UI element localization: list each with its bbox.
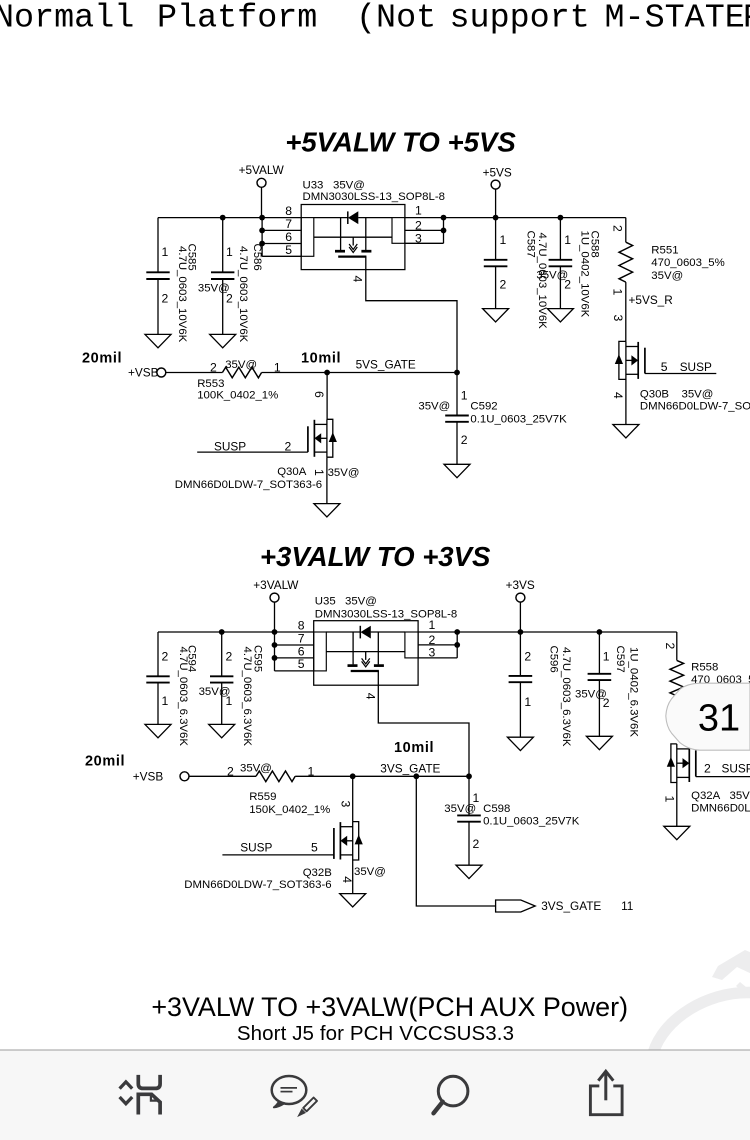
svg-text:SUSP: SUSP bbox=[214, 439, 246, 453]
toolbar icon: manage pages bbox=[120, 1075, 161, 1115]
wire down to Q32B bbox=[352, 776, 354, 821]
ground for Q32B bbox=[340, 894, 366, 907]
svg-text:1: 1 bbox=[312, 469, 326, 476]
svg-text:Normall: Normall bbox=[0, 0, 134, 38]
node rail/+3VALW junction bbox=[272, 629, 278, 635]
toolbar icon: annotate bbox=[272, 1076, 317, 1116]
svg-text:M-STATE: M-STATE bbox=[605, 0, 745, 38]
svg-text:DMN3030LSS-13_SOP8L-8: DMN3030LSS-13_SOP8L-8 bbox=[315, 609, 457, 621]
capacitor C596 bbox=[509, 632, 572, 747]
power terminal +VSB (section2) bbox=[133, 769, 256, 783]
svg-text:35V@: 35V@ bbox=[418, 401, 450, 413]
svg-text:(Not: (Not bbox=[356, 0, 436, 38]
transistor U33 body outline bbox=[301, 205, 405, 270]
power terminal +3VALW bbox=[253, 578, 299, 632]
wire Q30A source to ground bbox=[326, 457, 328, 503]
power terminal +5VS bbox=[483, 165, 512, 217]
svg-text:1: 1 bbox=[162, 245, 169, 259]
svg-text:2: 2 bbox=[500, 277, 507, 291]
wire pin2 stub bbox=[405, 229, 444, 231]
power terminal +3VS bbox=[506, 578, 535, 632]
node C598 junction bbox=[466, 773, 472, 779]
svg-text:4: 4 bbox=[363, 693, 377, 700]
wire +3VALW rail bbox=[158, 631, 314, 633]
svg-text:C597: C597 bbox=[614, 646, 626, 673]
transistor Q32B labels bbox=[184, 866, 386, 891]
svg-text:DMN66D0LDW-7_SOT363-6: DMN66D0LDW-7_SOT363-6 bbox=[691, 802, 750, 814]
svg-text:35V@: 35V@ bbox=[225, 359, 257, 371]
svg-text:3: 3 bbox=[415, 231, 422, 245]
svg-text:35V@: 35V@ bbox=[333, 180, 365, 192]
svg-text:C587: C587 bbox=[525, 231, 537, 258]
ground for C592 bbox=[444, 464, 470, 477]
svg-text:7: 7 bbox=[285, 217, 292, 231]
svg-text:150K_0402_1%: 150K_0402_1% bbox=[249, 804, 330, 816]
svg-text:10mil: 10mil bbox=[394, 740, 434, 756]
node Q30A gate junction bbox=[324, 370, 330, 376]
wire rail corner down to R558 bbox=[676, 632, 678, 660]
transistor Q30A bbox=[308, 419, 337, 457]
wire pin column to U35 pins 8-5 bbox=[275, 632, 314, 671]
svg-text:3: 3 bbox=[429, 646, 436, 660]
resistor R551 bbox=[611, 225, 725, 296]
mosfet inside U33 bbox=[314, 218, 392, 270]
wire 3VS_GATE net bbox=[295, 775, 469, 777]
svg-text:Q32B: Q32B bbox=[303, 867, 332, 879]
svg-text:2: 2 bbox=[704, 762, 711, 776]
svg-text:U33: U33 bbox=[303, 180, 324, 192]
ground for C586 bbox=[210, 334, 236, 347]
ground for C594 bbox=[145, 724, 171, 737]
wire Q30B gate to SUSP bbox=[645, 373, 716, 375]
op-amp U33 reference labels bbox=[303, 180, 445, 204]
wire pin column to U33 pins 8-5 bbox=[262, 218, 301, 257]
transistor Q32B bbox=[334, 822, 363, 860]
svg-text:+5VALW: +5VALW bbox=[239, 163, 285, 177]
svg-text:4: 4 bbox=[351, 276, 365, 283]
svg-text:31: 31 bbox=[698, 697, 740, 739]
svg-text:4.7U_0603_10V6K: 4.7U_0603_10V6K bbox=[237, 246, 249, 343]
svg-text:P: P bbox=[743, 0, 750, 38]
svg-text:8: 8 bbox=[298, 618, 305, 632]
capacitor C594 bbox=[146, 632, 197, 746]
header title text (cropped page header) bbox=[0, 0, 750, 38]
svg-text:20mil: 20mil bbox=[82, 350, 122, 366]
ground for Q32A bbox=[664, 826, 690, 839]
transistor U35 reference labels bbox=[315, 596, 457, 621]
toolbar icon: search bbox=[434, 1076, 468, 1113]
svg-text:3: 3 bbox=[611, 315, 625, 322]
svg-text:35V@: 35V@ bbox=[536, 270, 568, 282]
wire R558 to Q32A bbox=[676, 696, 678, 714]
node C597 junction bbox=[597, 629, 603, 635]
ground for C587 bbox=[483, 309, 509, 322]
node port drop junction bbox=[413, 773, 419, 779]
ground for C597 bbox=[586, 736, 612, 749]
node Q32B gate junction bbox=[350, 773, 356, 779]
svg-text:+5VS: +5VS bbox=[483, 165, 512, 179]
svg-text:2: 2 bbox=[162, 292, 169, 306]
node +5VS junction bbox=[493, 215, 499, 221]
wire down to Q30A bbox=[326, 373, 328, 420]
svg-text:5: 5 bbox=[661, 360, 668, 374]
svg-text:5: 5 bbox=[285, 243, 292, 257]
svg-text:+5VS_R: +5VS_R bbox=[629, 293, 673, 307]
svg-text:Q30B: Q30B bbox=[640, 388, 669, 400]
svg-text:1: 1 bbox=[662, 796, 676, 803]
svg-text:U35: U35 bbox=[315, 596, 336, 608]
wire pin2 stub (U35) bbox=[418, 644, 457, 646]
svg-text:1: 1 bbox=[564, 233, 571, 247]
svg-text:1U_0402_6.3V6K: 1U_0402_6.3V6K bbox=[627, 647, 639, 737]
svg-text:+3VALW TO +3VS: +3VALW TO +3VS bbox=[260, 541, 491, 572]
capacitor C585 bbox=[146, 218, 197, 343]
svg-text:C598: C598 bbox=[483, 803, 510, 815]
svg-text:3: 3 bbox=[339, 801, 353, 808]
transistor Q32A bbox=[667, 744, 696, 826]
svg-text:DMN66D0LDW-7_SOT363-6: DMN66D0LDW-7_SOT363-6 bbox=[175, 479, 322, 491]
node tie top (U35) bbox=[454, 629, 460, 635]
power terminal +5VALW bbox=[239, 163, 285, 218]
svg-text:C586: C586 bbox=[251, 244, 263, 271]
capacitor C592 bbox=[418, 373, 567, 465]
wire R551 to Q30B bbox=[625, 282, 627, 341]
svg-text:2: 2 bbox=[226, 650, 233, 664]
ground for C596 bbox=[507, 737, 533, 750]
svg-text:1: 1 bbox=[603, 649, 610, 663]
node C592 junction bbox=[454, 370, 460, 376]
svg-text:1: 1 bbox=[500, 233, 507, 247]
ground for C588 bbox=[547, 309, 573, 322]
svg-text:2: 2 bbox=[473, 837, 480, 851]
node pin6 junction (U35) bbox=[272, 655, 278, 661]
svg-text:C588: C588 bbox=[589, 231, 601, 258]
svg-text:C596: C596 bbox=[548, 646, 560, 673]
svg-text:35V@: 35V@ bbox=[682, 388, 714, 400]
toolbar top border bbox=[0, 1049, 750, 1051]
svg-text:3VS_GATE: 3VS_GATE bbox=[380, 761, 440, 775]
wire pin3 stub bbox=[405, 242, 444, 244]
svg-text:2: 2 bbox=[415, 218, 422, 232]
svg-text:Platform: Platform bbox=[157, 0, 317, 38]
svg-text:8: 8 bbox=[285, 204, 292, 218]
svg-text:3VS_GATE: 3VS_GATE bbox=[541, 899, 601, 913]
wire U33 pin1 to +5VS rail bbox=[405, 217, 626, 219]
svg-text:4.7U_0603_6.3V6K: 4.7U_0603_6.3V6K bbox=[241, 647, 253, 747]
mosfet inside U35 bbox=[326, 632, 405, 685]
toolbar icon: share bbox=[590, 1071, 622, 1114]
svg-text:support: support bbox=[450, 0, 590, 38]
svg-text:+3VALW: +3VALW bbox=[253, 578, 299, 592]
svg-text:C594: C594 bbox=[186, 645, 198, 672]
capacitor C598 bbox=[444, 776, 579, 865]
svg-text:11: 11 bbox=[621, 899, 633, 913]
svg-text:SUSP: SUSP bbox=[240, 841, 272, 855]
svg-text:0.1U_0603_25V7K: 0.1U_0603_25V7K bbox=[483, 816, 580, 828]
svg-text:5: 5 bbox=[298, 657, 305, 671]
transistor Q32A labels bbox=[662, 790, 750, 814]
svg-text:DMN66D0LDW-7_SOT363-6: DMN66D0LDW-7_SOT363-6 bbox=[640, 400, 750, 412]
wire pin1-2-3 tie (U35) bbox=[456, 632, 458, 658]
page number bubble 31 bbox=[666, 683, 750, 750]
svg-text:4.7U_0603_6.3V6K: 4.7U_0603_6.3V6K bbox=[560, 647, 572, 747]
svg-text:2: 2 bbox=[603, 696, 610, 710]
svg-text:R551: R551 bbox=[651, 245, 678, 257]
svg-text:6: 6 bbox=[285, 230, 292, 244]
svg-text:2: 2 bbox=[429, 633, 436, 647]
svg-text:5: 5 bbox=[311, 841, 318, 855]
svg-text:10mil: 10mil bbox=[301, 350, 341, 366]
svg-text:Q32A: Q32A bbox=[691, 790, 721, 802]
svg-text:+VSB: +VSB bbox=[133, 769, 164, 783]
power terminal +VSB bbox=[128, 366, 222, 380]
svg-text:2: 2 bbox=[611, 225, 625, 232]
svg-text:1: 1 bbox=[415, 204, 422, 218]
svg-text:+3VALW TO +3VALW(PCH AUX Power: +3VALW TO +3VALW(PCH AUX Power) bbox=[151, 992, 628, 1022]
node tie mid (U35) bbox=[454, 642, 460, 648]
wire U33 pin4 lead bbox=[366, 270, 457, 373]
svg-text:C585: C585 bbox=[185, 244, 197, 271]
transistor Q30B bbox=[615, 341, 645, 424]
ground for Q30A bbox=[314, 504, 340, 517]
svg-text:1: 1 bbox=[429, 618, 436, 632]
node rail/C595 junction bbox=[219, 629, 225, 635]
capacitor C587 bbox=[484, 218, 548, 330]
svg-text:DMN3030LSS-13_SOP8L-8: DMN3030LSS-13_SOP8L-8 bbox=[303, 191, 445, 203]
wire 5VS_GATE net bbox=[262, 372, 457, 374]
svg-text:35V@: 35V@ bbox=[240, 763, 272, 775]
ground for C585 bbox=[145, 334, 171, 347]
svg-text:4: 4 bbox=[340, 876, 354, 883]
diode inside U33 bbox=[314, 211, 392, 224]
svg-text:+VSB: +VSB bbox=[128, 366, 159, 380]
resistor R558 bbox=[663, 643, 750, 696]
capacitor C586 bbox=[198, 218, 263, 343]
node rail/+5VALW junction bbox=[259, 215, 265, 221]
svg-text:DMN66D0LDW-7_SOT363-6: DMN66D0LDW-7_SOT363-6 bbox=[184, 879, 331, 891]
watermark ghost logo bottom-right bbox=[634, 950, 750, 1135]
node tie mid bbox=[441, 228, 447, 234]
svg-text:Short J5 for PCH VCCSUS3.3: Short J5 for PCH VCCSUS3.3 bbox=[237, 1022, 514, 1045]
svg-text:Q30A: Q30A bbox=[277, 466, 307, 478]
svg-text:2: 2 bbox=[285, 439, 292, 453]
wire pin1-2-3 tie bbox=[443, 218, 445, 244]
svg-text:SUSP: SUSP bbox=[680, 360, 712, 374]
wire U35 pin4 lead bbox=[378, 685, 469, 776]
resistor R559 bbox=[227, 763, 330, 817]
node pin7 junction (U35) bbox=[272, 642, 278, 648]
svg-text:35V@: 35V@ bbox=[651, 270, 683, 282]
svg-text:35V@: 35V@ bbox=[444, 803, 476, 815]
svg-text:R553: R553 bbox=[197, 378, 224, 390]
capacitor C597 bbox=[575, 632, 639, 737]
svg-text:0.1U_0603_25V7K: 0.1U_0603_25V7K bbox=[470, 414, 567, 426]
node pin7 junction bbox=[259, 228, 265, 234]
wire Q32A gate to SUSP bbox=[696, 776, 750, 778]
svg-text:1: 1 bbox=[226, 245, 233, 259]
svg-text:5VS_GATE: 5VS_GATE bbox=[356, 358, 416, 372]
svg-text:35V@: 35V@ bbox=[328, 467, 360, 479]
toolbar background bbox=[0, 1051, 750, 1140]
svg-text:C595: C595 bbox=[252, 645, 264, 672]
svg-text:R559: R559 bbox=[249, 791, 276, 803]
transistor Q30A labels bbox=[175, 466, 360, 491]
node +3VS junction bbox=[518, 629, 524, 635]
ground for C595 bbox=[209, 724, 235, 737]
svg-text:6: 6 bbox=[312, 391, 326, 398]
wire SUSP to Q30A gate bbox=[197, 451, 308, 453]
svg-text:1: 1 bbox=[611, 289, 625, 296]
transistor Q30B labels bbox=[611, 388, 750, 412]
wire SUSP to Q32B gate bbox=[222, 854, 334, 856]
svg-text:4: 4 bbox=[611, 392, 625, 399]
svg-text:SUSP: SUSP bbox=[722, 762, 750, 776]
capacitor C595 bbox=[199, 632, 264, 746]
resistor R553 bbox=[197, 359, 281, 402]
wire 3VS_GATE to output port bbox=[416, 776, 495, 906]
ground for Q30B bbox=[613, 425, 639, 438]
diode inside U35 bbox=[326, 626, 405, 639]
svg-text:35V@: 35V@ bbox=[198, 283, 230, 295]
node rail/C586 junction bbox=[220, 215, 226, 221]
svg-text:2: 2 bbox=[227, 764, 234, 778]
wire rail corner down to R551 bbox=[625, 218, 627, 243]
svg-text:2: 2 bbox=[663, 643, 677, 650]
transistor U35 body outline bbox=[314, 621, 418, 686]
ground for C598 bbox=[456, 865, 482, 878]
svg-text:+3VS: +3VS bbox=[506, 578, 535, 592]
svg-text:100K_0402_1%: 100K_0402_1% bbox=[197, 389, 278, 401]
svg-text:+5VALW TO +5VS: +5VALW TO +5VS bbox=[285, 126, 516, 157]
node tie top bbox=[441, 215, 447, 221]
svg-text:R558: R558 bbox=[691, 662, 718, 674]
output port 3VS_GATE bbox=[496, 899, 634, 913]
svg-text:7: 7 bbox=[298, 631, 305, 645]
capacitor C588 bbox=[536, 218, 600, 318]
svg-text:2: 2 bbox=[210, 361, 217, 375]
svg-text:35V@: 35V@ bbox=[199, 686, 231, 698]
wire pin3 stub (U35) bbox=[418, 657, 457, 659]
svg-text:1: 1 bbox=[524, 695, 531, 709]
svg-text:1: 1 bbox=[461, 388, 468, 402]
svg-text:C592: C592 bbox=[470, 401, 497, 413]
svg-text:1: 1 bbox=[162, 694, 169, 708]
node C588 junction bbox=[558, 215, 564, 221]
node pin6 junction bbox=[259, 241, 265, 247]
wire U35 pin1 to +3VS rail bbox=[418, 631, 677, 633]
svg-text:2: 2 bbox=[524, 649, 531, 663]
svg-text:35V@: 35V@ bbox=[730, 790, 750, 802]
svg-text:20mil: 20mil bbox=[85, 753, 125, 769]
svg-text:35V@: 35V@ bbox=[354, 866, 386, 878]
svg-text:470_0603_5%: 470_0603_5% bbox=[651, 257, 724, 269]
svg-text:35V@: 35V@ bbox=[345, 596, 377, 608]
svg-text:2: 2 bbox=[162, 650, 169, 664]
svg-text:2: 2 bbox=[461, 433, 468, 447]
svg-text:6: 6 bbox=[298, 644, 305, 658]
wire Q32B source to ground bbox=[352, 860, 354, 894]
wire +5VALW rail bbox=[158, 217, 301, 219]
